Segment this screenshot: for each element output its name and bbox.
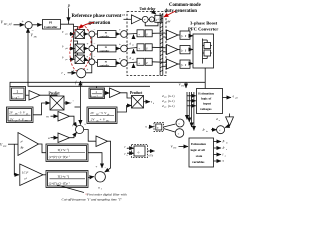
gate driver box row3 [180,60,190,68]
svg-text:×: × [178,122,180,126]
svg-text:1/3: 1/3 [122,14,126,17]
svg-text:PFC Converter: PFC Converter [188,27,218,32]
wire est box down [229,114,231,117]
svg-text:y²: y² [24,177,27,181]
wire S2a to PIa [95,33,98,35]
filter box B [46,171,88,188]
svg-text:+: + [119,28,121,32]
node da label [216,117,221,122]
wire M2 to sum [85,48,89,50]
svg-text:DC: DC [172,148,177,150]
node Vdc_ref input label [1,20,13,27]
summing junction S2c [89,59,95,65]
svg-text:pc: pc [164,107,167,109]
op-amp PI controller box [43,20,61,30]
wire E to G circles [164,124,176,127]
label Reference phase current generation [72,14,122,26]
svg-text:*First order digital filter wi: *First order digital filter with [85,193,127,197]
wire Vdc into est box [185,82,187,88]
duty sat box row2b [145,44,152,51]
amp Tb [58,133,70,143]
wire S4 to S2 column [86,65,92,73]
comparator triangle row3 [167,59,179,69]
svg-text:LC f²: LC f² [21,171,28,175]
svg-text:1: 1 [101,187,102,190]
duty bus verticals [186,92,188,120]
unit delay pointer [152,11,157,14]
svg-text:÷: ÷ [138,32,140,36]
svg-text:zb: zb [131,59,134,61]
svg-text:P̂: P̂ [222,146,225,150]
svg-text:(2+fT)−(2−fT)z−1: (2+fT)−(2−fT)z−1 [49,155,70,159]
label Unit delay [140,7,156,11]
svg-text:PI: PI [105,33,107,35]
svg-text:+: + [72,124,74,128]
svg-text:voltages: voltages [200,107,212,111]
svg-text:Unit delay: Unit delay [140,7,156,11]
summing junction C5 [95,172,105,182]
svg-text:−: − [94,42,96,46]
wire S3 rows to duty boxes [127,33,137,36]
multiplier product [132,96,144,109]
svg-text:×: × [219,128,221,132]
node phase template va [62,30,69,35]
wire Vdc feedback from converter [204,68,206,89]
svg-text:T(1+z−1): T(1+z−1) [58,148,70,152]
svg-text:pk: pk [95,121,98,123]
svg-text:pW: pW [165,19,171,23]
svg-text:≈5%: ≈5% [148,155,154,158]
junction circle top2 [149,17,154,22]
amp T4 [96,136,108,147]
label Common-mode duty generation [165,3,201,14]
amp TB2 [20,164,43,186]
amp T1 [29,91,40,101]
svg-text:×: × [150,18,152,22]
svg-text:a: a [225,156,226,158]
summing junction S2a [89,31,95,37]
wire C6 to T4 [84,130,96,142]
svg-text:−: − [105,166,107,170]
filter box L2 [89,88,105,99]
svg-text:Estimation: Estimation [198,92,214,96]
svg-text:z²: z² [20,140,23,144]
summing junction top [142,16,148,22]
wire dz stub row1 [133,35,135,38]
gate circle G2 [175,129,184,138]
est box output [223,97,232,99]
duty labels [162,94,174,109]
svg-text:±: ± [157,126,159,130]
svg-text:PI: PI [105,62,107,64]
svg-text:(n−1): (n−1) [168,99,174,103]
wire product out [144,101,151,103]
svg-text:DC: DC [180,86,185,88]
small box E [154,123,164,132]
duty sat box row3a [137,58,144,65]
wire comp to gate box [178,34,180,36]
wire Vdc_ref to summer [14,24,25,26]
svg-text:b: b [127,155,128,157]
svg-text:pc: pc [65,59,68,61]
summing junction S2b [89,46,95,52]
duty sat box row2a [137,44,144,51]
fraction box F2 [87,107,117,124]
wire F1 to predict [33,103,50,115]
svg-text:in: in [206,131,208,133]
red dashed ellipse reference current generation [68,25,93,73]
svg-text:k: k [153,103,154,105]
wire Ta to C6 [70,116,75,124]
svg-text:Controller: Controller [44,25,58,29]
svg-text:variables: variables [192,160,205,164]
wire M1 to sum [85,33,89,35]
converter box [193,34,214,68]
wire dz stub row2 [133,49,135,52]
wire dz stub row3 [133,64,135,67]
node Vdc label bottom-left [0,143,7,148]
label Product [130,91,143,95]
svg-text:×: × [84,123,86,127]
gate driver box row2 [180,46,190,54]
wire C7 out left [211,129,217,131]
svg-text:P̂: P̂ [202,127,205,132]
divider box [134,146,145,156]
svg-text:+: + [73,69,75,73]
svg-text:(2+fT)−(2−fT)z−1: (2+fT)−(2−fT)z−1 [49,181,70,185]
note text [62,193,127,202]
wire T2 to product [121,93,132,98]
svg-text:DC: DC [33,36,38,39]
svg-text:×: × [178,132,180,136]
wire sampled current bus [28,82,150,86]
svg-text:+: + [119,43,121,47]
wire Vdc into TB1 [8,143,18,145]
node ia label [62,71,67,76]
label Predict [49,92,61,96]
svg-text:÷: ÷ [137,151,140,156]
svg-text:+: + [144,18,146,22]
svg-text:−: − [94,55,96,59]
wire gates to converter [190,35,193,37]
svg-text:(n−1): (n−1) [168,94,174,98]
wire predict out [64,102,70,104]
wire S1 to PI box [32,24,42,26]
wire box A to C5 [88,153,102,167]
svg-text:Product: Product [130,91,143,95]
dashed box common-mode duty [127,12,166,76]
wire Tb to C6 [70,135,75,138]
multiplier M2 [75,44,85,53]
svg-text:Estimation: Estimation [191,142,206,146]
svg-text:DC: DC [24,120,29,122]
controller box row1 [98,31,117,38]
estimation logic of all state variables box [189,138,214,167]
svg-text:(n−1): (n−1) [168,104,174,108]
svg-text:DC: DC [105,121,110,123]
svg-text:controller: controller [100,36,110,38]
comparator triangle row1 [167,30,179,40]
state box outputs [214,141,222,143]
svg-text:−: − [94,28,96,32]
svg-text:T(1+z−1): T(1+z−1) [58,175,70,179]
svg-text:PI: PI [105,47,107,49]
summing junction S3b [121,45,128,52]
wire PI output [61,24,74,58]
svg-text:Cut-off frequency ‘f’ and samp: Cut-off frequency ‘f’ and sampling time … [62,197,123,202]
amp Ta [58,112,70,122]
svg-text:+: + [87,68,89,72]
red arrow to dashed box [164,11,176,17]
svg-text:Common-mode: Common-mode [169,3,201,8]
svg-text:Reference phase current: Reference phase current [72,14,122,19]
node Vdc label bottom right [171,145,177,150]
wire f up from below [79,81,81,107]
node u1 label [98,185,102,190]
amp TB1 [18,133,39,156]
node saw label [165,19,171,23]
summing junction S4 [77,69,86,78]
node Vdc label mid [179,83,185,88]
svg-text:o: o [226,149,227,151]
wire TB2 to box B [43,174,46,176]
divider out [148,150,155,152]
fraction box F1 [7,107,34,123]
wire unit delay feedback [145,22,158,26]
summing junction S1 [25,22,32,29]
svg-text:+: + [119,57,121,61]
svg-text:state: state [196,154,203,158]
amp T2 [110,88,121,98]
wire M3 to sum [85,59,89,60]
svg-text:1: 1 [16,90,18,94]
svg-text:P̂: P̂ [222,139,225,143]
svg-text:input: input [203,102,212,106]
summing junction S3c [121,60,128,67]
node phase template vb [62,45,69,50]
node Vdc label under S1 [31,34,38,39]
svg-text:logic of all: logic of all [191,148,205,152]
wire F2 to product [117,106,132,113]
svg-text:−3: −3 [99,111,103,115]
svg-text:DC_ref: DC_ref [3,23,13,26]
node u2 label [146,125,150,130]
wire PIa to S3a [116,33,120,35]
unit delay box z-1 [155,15,162,22]
svg-text:controller: controller [100,65,110,67]
svg-text:2: 2 [148,128,149,130]
divider box inputs [125,145,128,157]
svg-text:÷: ÷ [138,46,140,50]
wire T4 out to C5 [106,141,111,171]
svg-text:duty generation: duty generation [165,9,198,14]
svg-text:generation: generation [89,21,111,26]
svg-text:+: + [18,117,20,121]
svg-text:ph: ph [235,98,238,100]
node phase template vc [62,56,68,61]
svg-text:÷: ÷ [138,61,140,65]
svg-text:DC: DC [2,145,7,148]
duty label arrows [187,95,196,97]
gate driver box row1 [180,31,190,39]
wire TD to C7 [225,126,230,128]
converter internals [203,39,212,64]
triangle down TD [226,117,234,126]
node P label [67,4,71,9]
svg-text:in: in [226,143,228,145]
wire T1 to predict [40,94,57,97]
svg-text:+: + [87,42,89,46]
comparator triangle row2 [167,45,179,55]
wire current feedback vertical [91,37,93,65]
summing junction C7 [217,126,225,134]
summing junction C6 [76,125,84,133]
wire TB1 to box A [39,144,47,153]
wire rows to comparators [152,32,166,34]
multiplier M3 [75,55,85,64]
wire stubs into multipliers [74,27,78,30]
svg-text:+: + [87,28,89,32]
divider dashed box [132,145,148,158]
svg-text:pb: pb [164,102,167,104]
red arrow to ellipse [79,23,94,29]
controller box row3 [98,60,117,67]
svg-text:P: P [67,4,71,9]
filter box L1 (1/(1-z^-1)) [10,87,26,101]
summing junction S3a [121,31,128,38]
wire P drop [68,8,70,21]
controller box row2 [98,45,117,52]
wire Vdc to state box [179,146,189,148]
svg-text:Ry: Ry [20,146,25,150]
wire box B to C5 [88,176,94,179]
svg-text:+: + [86,55,88,59]
node Pin hat label [202,127,208,133]
svg-text:pa: pa [164,97,167,99]
note leader line [57,185,84,193]
duty sat box row1b [145,30,152,37]
svg-text:controller: controller [100,50,110,52]
duty sat box row1a [137,30,144,37]
multiplier M1 [75,30,85,39]
svg-text:pk: pk [14,120,17,122]
svg-text:logic of: logic of [201,97,212,101]
svg-text:+: + [100,118,102,122]
gain 1/3 triangle [131,15,140,24]
svg-text:−3: −3 [18,110,22,114]
label 3-phase Boost PFC Converter [188,21,218,32]
gate circle G1 [176,119,184,127]
filter box A [46,144,88,162]
estimation logic of input voltages box [197,89,223,114]
wire branch down to TB2 [14,144,18,175]
duty sat box row3b [145,58,152,65]
node f label [75,81,84,86]
carrier bus hatched [160,13,163,76]
svg-text:za: za [131,45,134,47]
svg-text:3-phase Boost: 3-phase Boost [190,21,218,26]
svg-text:+: + [96,165,98,169]
multiplier predict [50,96,64,110]
